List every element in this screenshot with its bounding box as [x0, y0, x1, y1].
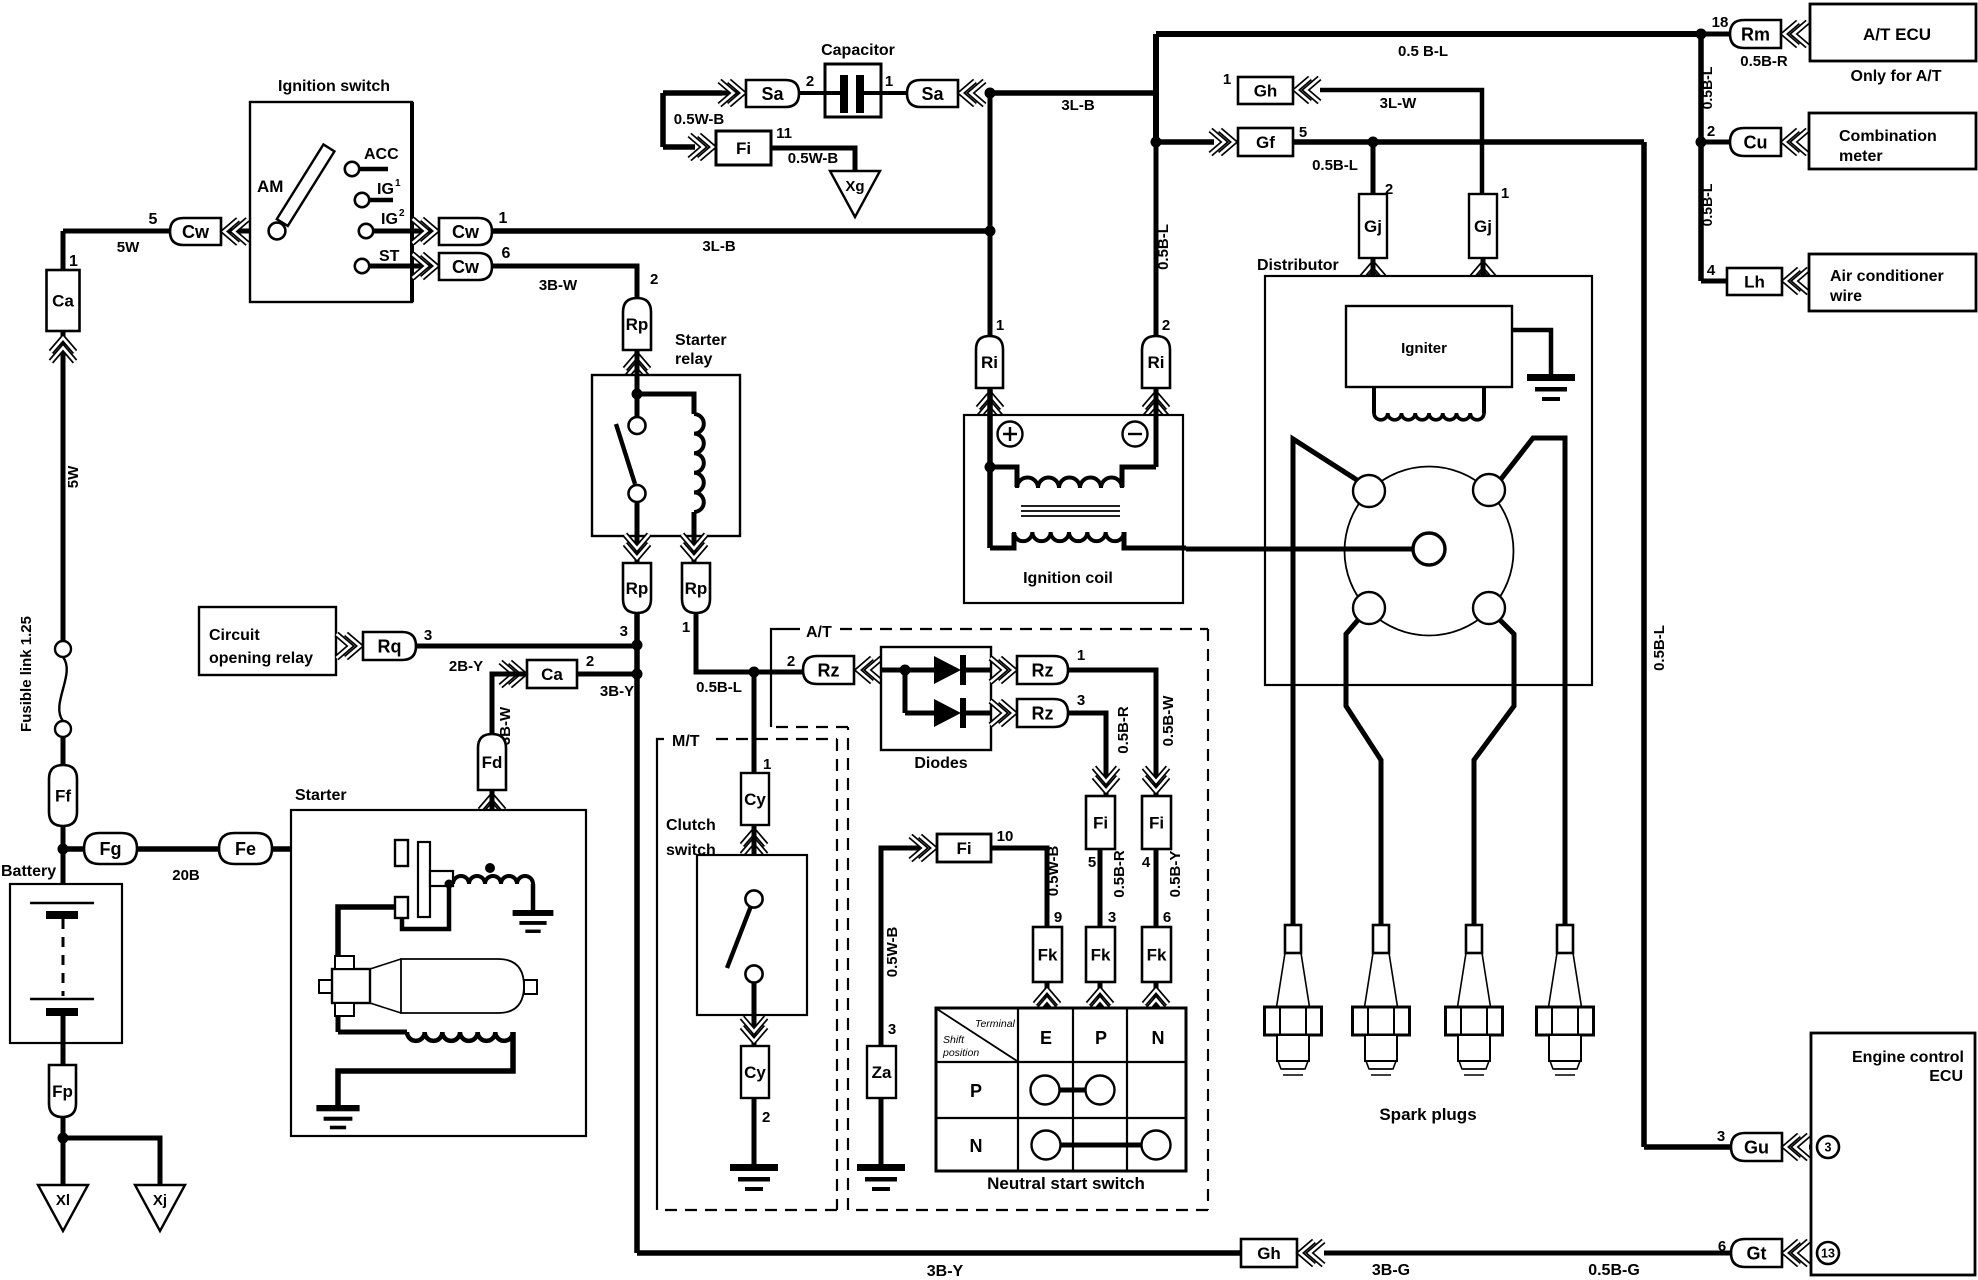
ground triangle Xl	[38, 1185, 88, 1231]
svg-text:Cw: Cw	[452, 222, 480, 242]
svg-text:Xl: Xl	[56, 1192, 70, 1209]
svg-text:Fk: Fk	[1147, 946, 1167, 965]
arrow into Cw ST	[422, 254, 436, 278]
connector Cw pin1	[439, 218, 492, 245]
svg-text:0.5B-W: 0.5B-W	[1160, 695, 1177, 747]
diode 2	[934, 699, 961, 727]
arrow into Gh	[1296, 78, 1310, 102]
connector Fi (5)	[1086, 796, 1115, 849]
svg-text:A/T ECU: A/T ECU	[1863, 25, 1931, 44]
svg-text:0.5W-B: 0.5W-B	[1045, 846, 1062, 897]
ground under Cy2	[752, 1098, 757, 1164]
wire 3B-W	[492, 266, 637, 298]
svg-text:Gj: Gj	[1474, 217, 1492, 236]
contact IG1	[355, 193, 369, 207]
arrow into Fi10	[920, 836, 934, 860]
arrow into Ca	[51, 338, 75, 352]
svg-text:meter: meter	[1839, 148, 1883, 165]
svg-text:Fp: Fp	[52, 1082, 73, 1101]
arrow into Cy2	[742, 1027, 766, 1041]
connector Fk (3)	[1086, 927, 1115, 982]
wire AM 5W to ignition switch	[63, 229, 271, 234]
connector Ri pin2	[1142, 336, 1170, 388]
primary winding	[987, 388, 993, 548]
svg-text:0.5B-Y: 0.5B-Y	[1167, 851, 1184, 898]
svg-text:3B-Y: 3B-Y	[600, 683, 634, 700]
svg-text:3: 3	[888, 1021, 896, 1038]
svg-text:Starter: Starter	[295, 787, 347, 804]
svg-text:3L-B: 3L-B	[1061, 97, 1095, 114]
core	[1021, 506, 1120, 516]
arrow into Cw left	[224, 220, 238, 244]
svg-text:2B-Y: 2B-Y	[449, 658, 483, 675]
connector Rp pin1	[682, 563, 710, 613]
ignition switch lever	[277, 144, 335, 226]
relay switch	[629, 417, 646, 434]
contact ST	[355, 259, 369, 273]
svg-text:Rp: Rp	[626, 579, 649, 598]
arrow into Sa left	[729, 81, 743, 105]
svg-text:2: 2	[586, 653, 594, 670]
svg-text:5W: 5W	[117, 239, 140, 256]
svg-text:Ff: Ff	[55, 787, 71, 806]
wire to Gj2	[1371, 142, 1376, 194]
svg-text:6: 6	[1163, 909, 1171, 926]
svg-text:4: 4	[1707, 262, 1716, 279]
wire ST out	[370, 264, 439, 269]
neutral start switch table	[936, 1008, 1186, 1171]
svg-text:wire: wire	[1829, 288, 1862, 305]
svg-text:0.5B-R: 0.5B-R	[1115, 706, 1132, 754]
diodes box	[881, 647, 991, 750]
connector Rq	[363, 632, 416, 660]
svg-text:Rz: Rz	[1032, 660, 1054, 680]
wire 2B-Y	[416, 644, 637, 649]
svg-text:Sa: Sa	[921, 84, 944, 104]
wire top loop to Sa	[722, 91, 746, 96]
connector Fe	[219, 833, 272, 864]
contact IG2	[359, 224, 373, 238]
svg-text:1: 1	[499, 210, 508, 227]
fusible link 1.25	[55, 641, 71, 657]
svg-text:0.5B-L: 0.5B-L	[1312, 157, 1358, 174]
arrow into Rp2	[625, 355, 649, 369]
svg-text:Clutch: Clutch	[666, 817, 716, 834]
plug wire 1	[1293, 439, 1357, 925]
igniter box	[1346, 306, 1512, 387]
P row contacts	[1031, 1076, 1060, 1105]
connector Cw (AM side)	[170, 218, 221, 245]
wire 3B-G / 0.5B-G	[1324, 1251, 1731, 1256]
connector Rp pin3	[623, 563, 651, 613]
junction Gf line	[1151, 137, 1162, 148]
plus terminal	[998, 422, 1023, 447]
svg-text:5: 5	[1088, 854, 1096, 871]
combination meter box	[1809, 113, 1976, 169]
svg-text:Circuit: Circuit	[209, 627, 260, 644]
solenoid coil	[453, 876, 533, 884]
svg-text:Fi: Fi	[1149, 814, 1164, 833]
connector Gj pin2	[1359, 194, 1387, 258]
wire 3L-B from Cw1	[492, 228, 990, 234]
svg-text:Gu: Gu	[1744, 1137, 1769, 1157]
connector Za	[867, 1046, 896, 1098]
solenoid plunger	[418, 842, 430, 917]
diode 1	[934, 656, 961, 684]
svg-text:Ri: Ri	[1148, 353, 1165, 372]
connector Ff	[49, 765, 77, 826]
svg-text:6: 6	[1718, 1238, 1726, 1255]
arrows out of diodes	[1000, 658, 1014, 682]
wire 0.5B-R	[1068, 713, 1106, 796]
svg-text:Rz: Rz	[1032, 703, 1054, 723]
svg-text:Ignition coil: Ignition coil	[1023, 570, 1113, 587]
svg-text:0.5B-L: 0.5B-L	[696, 679, 742, 696]
svg-text:Gj: Gj	[1364, 217, 1382, 236]
wire 0.5B-L from Gf to right	[1293, 139, 1644, 145]
wire 3L-W	[1320, 90, 1482, 194]
svg-text:Ca: Ca	[52, 292, 74, 311]
wire 3L-B vertical to top	[988, 93, 993, 231]
connector Cu	[1701, 140, 1730, 145]
cap contacts	[1353, 475, 1385, 507]
svg-text:5: 5	[149, 211, 158, 228]
connector Cy pin1	[741, 773, 769, 825]
arrow into Ri2	[1144, 394, 1168, 408]
relay wires	[635, 350, 640, 417]
arrow into Ri1	[978, 394, 1002, 408]
svg-text:AM: AM	[257, 177, 283, 196]
svg-text:Terminal: Terminal	[975, 1018, 1016, 1030]
svg-text:IG: IG	[377, 181, 394, 198]
svg-text:5: 5	[1299, 124, 1307, 141]
svg-text:P: P	[1095, 1028, 1107, 1048]
svg-text:Rz: Rz	[818, 660, 840, 680]
svg-text:Lh: Lh	[1744, 273, 1765, 292]
svg-text:0.5B-L: 0.5B-L	[1699, 183, 1715, 226]
clutch switch box	[697, 855, 807, 1015]
wire 0.5B-L drop to clutch switch	[752, 672, 757, 773]
svg-text:3B-G: 3B-G	[1372, 1262, 1410, 1279]
connector Ri pin1	[976, 336, 1003, 388]
svg-text:Xj: Xj	[153, 1192, 167, 1209]
svg-text:Cw: Cw	[452, 257, 480, 277]
wire into starter	[490, 790, 495, 866]
A/T ECU box	[1810, 4, 1976, 61]
svg-text:ST: ST	[379, 248, 400, 265]
svg-text:ACC: ACC	[364, 146, 399, 163]
A/T dashed box	[771, 629, 800, 727]
svg-text:3B-W: 3B-W	[539, 277, 578, 294]
svg-text:Rq: Rq	[378, 636, 402, 656]
svg-text:4: 4	[1142, 854, 1151, 871]
field coil	[338, 1016, 407, 1032]
diode input wires	[882, 668, 934, 673]
svg-text:0.5B-L: 0.5B-L	[1155, 224, 1172, 270]
svg-text:Neutral start switch: Neutral start switch	[987, 1174, 1145, 1193]
svg-text:Fusible link 1.25: Fusible link 1.25	[18, 616, 35, 732]
svg-text:Battery: Battery	[1, 863, 56, 880]
svg-text:Spark plugs: Spark plugs	[1379, 1105, 1476, 1124]
arrows into Fi boxes	[1094, 777, 1118, 791]
arrow into Cy1	[742, 831, 766, 845]
starter motor to lower stud wire	[338, 907, 396, 957]
plug wire 3	[1474, 620, 1514, 925]
ground under Za	[879, 1098, 884, 1164]
svg-text:2: 2	[1707, 123, 1715, 140]
svg-text:relay: relay	[675, 351, 712, 368]
secondary winding	[990, 533, 1014, 548]
svg-text:N: N	[1152, 1028, 1165, 1048]
svg-text:3L-W: 3L-W	[1380, 95, 1418, 112]
solenoid coil ground	[531, 884, 536, 910]
arrow into Fd	[480, 796, 504, 810]
svg-text:Fg: Fg	[100, 839, 122, 859]
svg-text:9: 9	[1054, 909, 1062, 926]
wires to ground triangles	[61, 1117, 66, 1185]
svg-text:Rp: Rp	[685, 579, 708, 598]
svg-text:10: 10	[997, 828, 1014, 845]
connector Sa pin2	[746, 80, 799, 107]
svg-text:3B-Y: 3B-Y	[927, 1263, 964, 1280]
svg-text:Combination: Combination	[1839, 128, 1937, 145]
svg-text:Air conditioner: Air conditioner	[1830, 268, 1944, 285]
svg-text:opening relay: opening relay	[209, 650, 313, 667]
svg-text:Gh: Gh	[1257, 1244, 1281, 1263]
connector Fd	[478, 734, 506, 790]
starter ground	[316, 1105, 359, 1111]
connector Ca (top left)	[47, 270, 80, 331]
svg-text:6: 6	[502, 245, 511, 262]
svg-text:Fk: Fk	[1038, 946, 1058, 965]
arrow into Rz2	[858, 658, 872, 682]
wire IG2 out	[374, 229, 439, 234]
svg-text:0.5 B-L: 0.5 B-L	[1398, 43, 1448, 60]
svg-text:Sa: Sa	[761, 84, 784, 104]
plug wire 2	[1346, 620, 1381, 925]
svg-text:1: 1	[885, 73, 893, 90]
svg-text:2: 2	[399, 208, 405, 219]
svg-text:20B: 20B	[172, 867, 200, 884]
connector Fi (4)	[1142, 796, 1171, 849]
starter relay box	[592, 375, 740, 536]
svg-text:Shift: Shift	[943, 1034, 965, 1046]
connector Rm	[1701, 32, 1730, 37]
svg-text:E: E	[1040, 1028, 1052, 1048]
center electrode	[1186, 547, 1413, 552]
starter motor	[319, 980, 332, 993]
wire 3B-Y to Ca	[577, 672, 637, 677]
svg-text:position: position	[942, 1047, 979, 1059]
svg-text:Gf: Gf	[1256, 133, 1275, 152]
svg-text:Cw: Cw	[182, 222, 210, 242]
wire 0.5B-W	[1068, 670, 1156, 796]
svg-text:3: 3	[620, 623, 628, 640]
connector Gh (bottom)	[1241, 1239, 1297, 1267]
connector Cy pin2	[741, 1046, 769, 1098]
air conditioner wire box	[1809, 254, 1976, 311]
connector Cw pin6	[439, 253, 492, 280]
connector Rz pin1	[1017, 656, 1068, 684]
connector Gf	[1238, 128, 1293, 156]
connector Fi (10)	[937, 834, 991, 862]
svg-text:0.5W-B: 0.5W-B	[788, 150, 839, 167]
wire 0.5W-B Fi to Fk(9)	[991, 848, 1047, 927]
svg-text:M/T: M/T	[672, 733, 700, 750]
ignition switch box	[250, 102, 412, 302]
wire 3B-W down to Fd	[492, 674, 527, 734]
connector Rp pin2	[623, 298, 651, 350]
contact ACC	[345, 162, 359, 176]
svg-text:Cu: Cu	[1744, 132, 1768, 152]
wires Fk to switch	[1045, 982, 1050, 1008]
connector Fp	[49, 1065, 76, 1117]
wire 0.5 B-L top run	[1156, 34, 1701, 93]
arrow into Ca	[510, 662, 524, 686]
wire 0.5W-B from Za to Fi10	[881, 848, 920, 1046]
M/T dashed box	[657, 739, 664, 1210]
svg-text:Ignition switch: Ignition switch	[278, 78, 390, 95]
svg-text:3: 3	[1108, 909, 1116, 926]
svg-text:Xg: Xg	[845, 178, 864, 195]
circuit opening relay box	[199, 607, 336, 675]
svg-text:3: 3	[1717, 1128, 1725, 1145]
wire 20B	[63, 846, 397, 852]
spark plug at 1474	[1466, 925, 1482, 953]
wire 3B-Y long vertical and bottom run	[637, 613, 1241, 1253]
svg-text:2: 2	[1162, 317, 1170, 334]
svg-text:Diodes: Diodes	[914, 755, 967, 772]
svg-text:1: 1	[763, 756, 771, 773]
N row contacts	[1032, 1131, 1061, 1160]
connector Rz pin3	[1017, 699, 1068, 727]
svg-text:13: 13	[1821, 1247, 1835, 1261]
wire to Ri1	[988, 231, 993, 336]
svg-text:Cy: Cy	[744, 790, 766, 809]
ground triangle Xg	[830, 171, 880, 217]
svg-text:Fd: Fd	[482, 753, 503, 772]
connector Sa pin1	[907, 80, 958, 107]
svg-text:1: 1	[996, 317, 1004, 334]
svg-text:1: 1	[1223, 71, 1231, 88]
svg-text:Gh: Gh	[1254, 82, 1278, 101]
svg-text:0.5B-L: 0.5B-L	[1651, 625, 1668, 671]
svg-text:ECU: ECU	[1929, 1068, 1963, 1085]
svg-text:0.5W-B: 0.5W-B	[884, 927, 901, 978]
connector Fk (6)	[1142, 927, 1171, 982]
svg-text:0.5B-G: 0.5B-G	[1588, 1262, 1640, 1279]
rotor circle	[1345, 467, 1514, 636]
svg-text:Fi: Fi	[956, 839, 971, 858]
svg-text:0.5B-R: 0.5B-R	[1111, 850, 1128, 898]
svg-text:N: N	[970, 1136, 983, 1156]
right feeder vertical	[1698, 34, 1704, 281]
svg-text:3: 3	[1077, 692, 1085, 709]
svg-text:Distributor: Distributor	[1257, 257, 1339, 274]
svg-text:Fe: Fe	[235, 839, 256, 859]
svg-text:1: 1	[682, 619, 690, 636]
svg-text:0.5W-B: 0.5W-B	[674, 111, 725, 128]
ground triangle Xj	[135, 1185, 185, 1231]
relay coil	[694, 414, 704, 512]
spark plug at 1381	[1373, 925, 1389, 953]
connector Lh	[1701, 279, 1727, 284]
svg-text:3: 3	[1825, 1141, 1832, 1155]
svg-text:Ca: Ca	[541, 665, 563, 684]
svg-text:2: 2	[762, 1109, 770, 1126]
svg-text:Za: Za	[872, 1063, 892, 1082]
svg-text:Rm: Rm	[1741, 24, 1770, 44]
svg-text:2: 2	[787, 653, 795, 670]
svg-text:3L-B: 3L-B	[702, 238, 736, 255]
connector Fg	[84, 833, 137, 864]
svg-text:Gt: Gt	[1747, 1243, 1767, 1263]
svg-text:5W: 5W	[65, 465, 82, 488]
svg-text:Fi: Fi	[736, 139, 751, 158]
svg-text:Capacitor: Capacitor	[821, 42, 895, 59]
svg-text:Engine control: Engine control	[1852, 1049, 1964, 1066]
connector Ca (3B-Y)	[527, 660, 577, 688]
svg-text:A/T: A/T	[806, 624, 832, 641]
svg-text:2: 2	[650, 271, 658, 288]
long 0.5B-L vertical	[1644, 142, 1731, 1147]
svg-text:1: 1	[1077, 647, 1085, 664]
arrow into Sa right	[961, 81, 975, 105]
igniter ground	[1512, 330, 1551, 374]
svg-text:1: 1	[395, 178, 401, 189]
svg-text:18: 18	[1712, 14, 1729, 31]
svg-text:0.5B-R: 0.5B-R	[1740, 53, 1788, 70]
svg-text:3: 3	[424, 627, 432, 644]
svg-text:Cy: Cy	[744, 1063, 766, 1082]
svg-text:Starter: Starter	[675, 332, 727, 349]
pickup coil	[1372, 387, 1376, 413]
svg-text:0.5B-L: 0.5B-L	[1699, 66, 1715, 109]
starter contact studs	[395, 840, 408, 866]
connector Fk (9)	[1033, 927, 1062, 982]
arrow into Cw IG2	[422, 219, 436, 243]
spark plug at 1565	[1557, 925, 1573, 953]
svg-text:Rp: Rp	[626, 315, 649, 334]
ignition coil box	[964, 415, 1183, 603]
wire 0.5W-B to Xg	[771, 148, 855, 171]
wires Fi to Fk	[1098, 849, 1103, 927]
plug wire 4	[1501, 438, 1565, 925]
spark plug at 1293	[1285, 925, 1301, 953]
svg-text:1: 1	[69, 253, 78, 270]
wire 0.5B-L from Rp1	[696, 613, 803, 672]
svg-text:1: 1	[1501, 185, 1509, 202]
arrow into Rq	[346, 634, 360, 658]
svg-text:Ri: Ri	[981, 353, 998, 372]
arrow into Gf	[1156, 139, 1214, 145]
wire to Ri2	[1154, 142, 1159, 336]
engine control ECU box	[1811, 1033, 1975, 1275]
arrows out of relay	[625, 544, 649, 558]
minus terminal	[1123, 422, 1148, 447]
svg-text:11: 11	[776, 125, 792, 142]
svg-text:Fi: Fi	[1093, 814, 1108, 833]
svg-text:Igniter: Igniter	[1401, 340, 1447, 357]
connector Rz pin2	[803, 656, 854, 684]
svg-text:P: P	[970, 1081, 982, 1101]
svg-text:Fk: Fk	[1091, 946, 1111, 965]
wire 5W battery feed left column	[61, 231, 66, 641]
svg-text:IG: IG	[381, 211, 398, 228]
svg-text:Only for A/T: Only for A/T	[1851, 68, 1942, 85]
svg-text:2: 2	[806, 73, 814, 90]
